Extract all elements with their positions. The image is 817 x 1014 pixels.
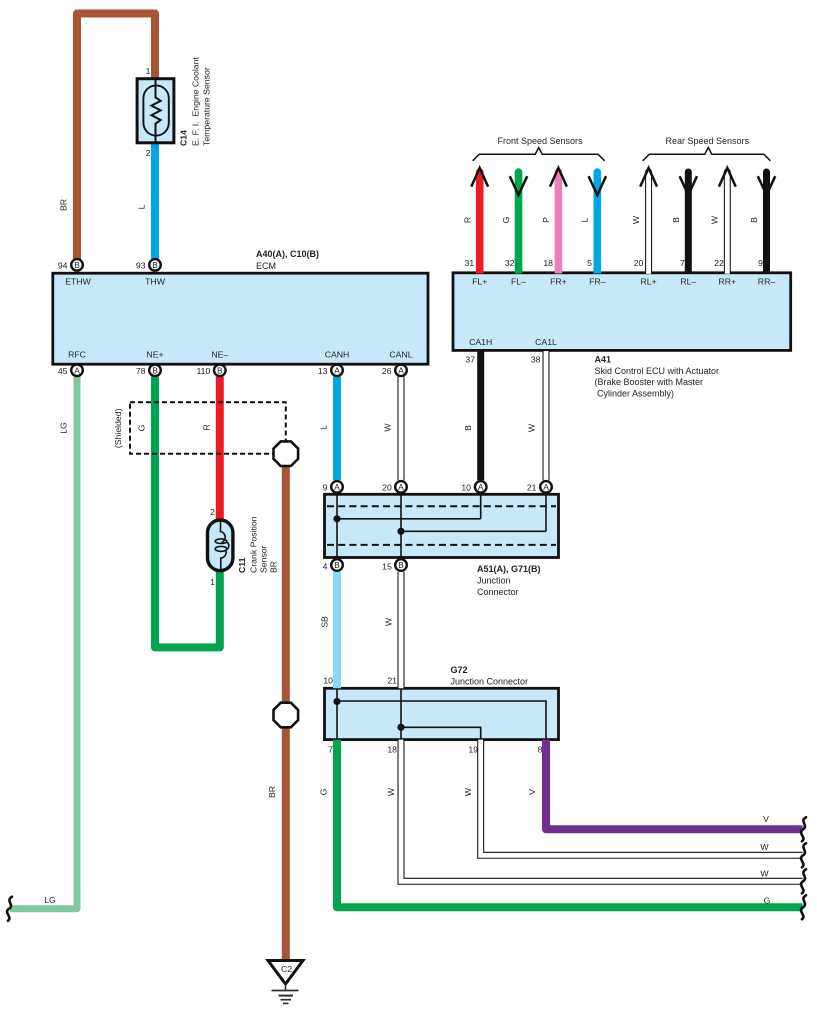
svg-text:G72: G72 (451, 665, 468, 675)
svg-text:Junction Connector: Junction Connector (451, 677, 529, 687)
svg-text:C2: C2 (281, 964, 292, 974)
svg-text:SB: SB (319, 616, 329, 628)
svg-text:A: A (398, 482, 404, 492)
svg-text:G: G (137, 424, 147, 431)
svg-text:A40(A), C10(B): A40(A), C10(B) (256, 249, 319, 259)
svg-text:L: L (580, 217, 590, 222)
svg-text:110: 110 (196, 366, 210, 376)
svg-text:CA1H: CA1H (469, 337, 492, 347)
svg-text:13: 13 (318, 366, 328, 376)
svg-text:B: B (749, 217, 759, 223)
svg-text:L: L (137, 204, 147, 209)
svg-text:A51(A), G71(B): A51(A), G71(B) (477, 564, 541, 574)
svg-text:(Shielded): (Shielded) (113, 408, 123, 448)
svg-text:W: W (760, 869, 769, 879)
svg-text:C14: C14 (179, 130, 189, 146)
svg-text:4: 4 (323, 562, 328, 572)
svg-text:37: 37 (465, 355, 475, 365)
svg-text:8: 8 (538, 745, 543, 755)
svg-text:V: V (763, 814, 769, 824)
svg-text:L: L (319, 425, 329, 430)
svg-text:A: A (334, 482, 340, 492)
svg-text:R: R (463, 217, 473, 223)
svg-text:2: 2 (210, 507, 215, 517)
svg-text:7: 7 (328, 745, 333, 755)
svg-text:31: 31 (465, 258, 475, 268)
svg-text:9: 9 (758, 258, 763, 268)
svg-text:A41: A41 (595, 355, 612, 365)
svg-text:NE–: NE– (211, 350, 228, 360)
svg-text:93: 93 (136, 261, 146, 271)
svg-text:B: B (334, 560, 340, 570)
svg-text:15: 15 (382, 562, 392, 572)
svg-text:18: 18 (387, 745, 397, 755)
svg-text:A: A (398, 365, 404, 375)
svg-text:FL–: FL– (511, 277, 526, 287)
svg-text:ECM: ECM (256, 261, 276, 271)
svg-text:Temperature Sensor: Temperature Sensor (202, 67, 212, 146)
svg-text:1: 1 (210, 577, 215, 587)
svg-text:22: 22 (714, 258, 724, 268)
svg-text:G: G (319, 788, 329, 795)
svg-text:A: A (334, 365, 340, 375)
svg-text:W: W (386, 787, 396, 796)
svg-text:B: B (217, 365, 223, 375)
svg-text:G: G (501, 216, 511, 223)
svg-text:LG: LG (59, 422, 69, 434)
svg-text:RR+: RR+ (718, 277, 736, 287)
svg-text:RL–: RL– (680, 277, 696, 287)
svg-text:Skid Control ECU with Actuator: Skid Control ECU with Actuator (595, 366, 720, 376)
svg-text:26: 26 (382, 366, 392, 376)
svg-text:Sensor: Sensor (259, 545, 269, 573)
svg-text:THW: THW (145, 277, 166, 287)
svg-text:CANL: CANL (389, 350, 412, 360)
svg-text:Cylinder Assembly): Cylinder Assembly) (595, 388, 675, 398)
svg-text:V: V (527, 789, 537, 795)
svg-text:20: 20 (382, 483, 392, 493)
svg-text:W: W (710, 215, 720, 224)
svg-text:FR+: FR+ (550, 277, 567, 287)
svg-text:B: B (152, 260, 158, 270)
svg-text:9: 9 (323, 483, 328, 493)
svg-text:Crank Position: Crank Position (249, 516, 259, 573)
svg-text:W: W (383, 617, 393, 626)
svg-text:NE+: NE+ (146, 350, 163, 360)
svg-text:78: 78 (136, 366, 146, 376)
svg-text:Rear Speed Sensors: Rear Speed Sensors (666, 136, 750, 146)
svg-text:BR: BR (269, 561, 279, 573)
svg-text:B: B (74, 260, 80, 270)
svg-text:21: 21 (527, 483, 537, 493)
svg-text:BR: BR (267, 786, 277, 798)
svg-text:19: 19 (468, 745, 478, 755)
svg-text:RFC: RFC (68, 350, 86, 360)
svg-text:W: W (463, 787, 473, 796)
svg-text:Connector: Connector (477, 587, 519, 597)
svg-text:20: 20 (634, 258, 644, 268)
svg-text:10: 10 (461, 483, 471, 493)
svg-text:BR: BR (59, 199, 69, 211)
svg-text:(Brake Booster with Master: (Brake Booster with Master (595, 377, 704, 387)
svg-text:18: 18 (543, 258, 553, 268)
svg-text:LG: LG (44, 895, 56, 905)
svg-text:A: A (543, 482, 549, 492)
svg-text:Front Speed Sensors: Front Speed Sensors (497, 136, 583, 146)
svg-text:32: 32 (505, 258, 515, 268)
svg-text:5: 5 (587, 258, 592, 268)
svg-text:B: B (398, 560, 404, 570)
svg-text:45: 45 (58, 366, 68, 376)
svg-text:R: R (202, 424, 212, 430)
svg-text:C11: C11 (237, 557, 247, 573)
svg-text:A: A (74, 365, 80, 375)
svg-text:Junction: Junction (477, 575, 511, 585)
svg-text:10: 10 (323, 676, 333, 686)
svg-text:W: W (383, 423, 393, 432)
svg-text:21: 21 (387, 676, 397, 686)
svg-text:94: 94 (58, 261, 68, 271)
svg-text:RR–: RR– (758, 277, 776, 287)
svg-text:G: G (764, 896, 771, 906)
svg-text:P: P (541, 217, 551, 223)
svg-text:E. F. I. Engine Coolant: E. F. I. Engine Coolant (191, 57, 201, 146)
svg-text:W: W (760, 842, 769, 852)
svg-text:1: 1 (146, 66, 151, 76)
svg-text:2: 2 (146, 148, 151, 158)
svg-text:FL+: FL+ (472, 277, 487, 287)
svg-text:CA1L: CA1L (535, 337, 557, 347)
svg-text:RL+: RL+ (641, 277, 657, 287)
svg-text:CANH: CANH (325, 350, 350, 360)
svg-text:B: B (463, 425, 473, 431)
svg-text:FR–: FR– (589, 277, 606, 287)
svg-text:B: B (152, 365, 158, 375)
svg-text:38: 38 (531, 355, 541, 365)
svg-text:7: 7 (680, 258, 685, 268)
svg-text:W: W (631, 215, 641, 224)
svg-text:B: B (671, 217, 681, 223)
svg-text:A: A (478, 482, 484, 492)
svg-text:ETHW: ETHW (65, 277, 91, 287)
svg-text:W: W (527, 423, 537, 432)
